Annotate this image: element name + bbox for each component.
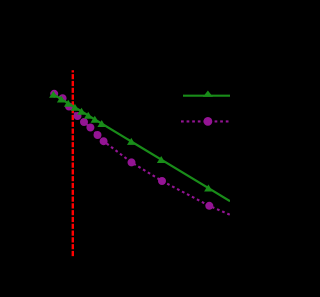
legend: green series sample line (183, 95, 230, 97)
purple dashed data line (54, 94, 230, 215)
green triangle markers (49, 91, 213, 192)
purple circle markers (50, 90, 213, 210)
legend: purple circle marker (204, 117, 213, 126)
red dashed vertical threshold line (72, 70, 74, 256)
legend: green triangle marker (203, 91, 213, 97)
green solid data line (53, 94, 230, 201)
legend: purple dashed sample line (181, 120, 230, 122)
